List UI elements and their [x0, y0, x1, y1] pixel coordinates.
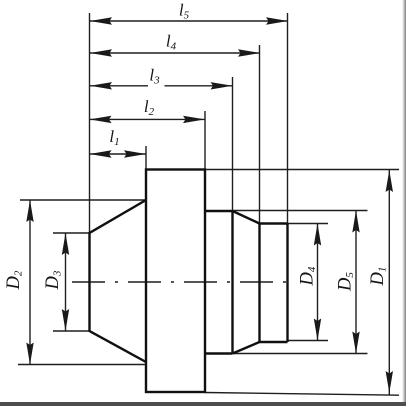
svg-text:D2: D2	[4, 270, 25, 290]
svg-text:D3: D3	[43, 270, 64, 290]
svg-text:D4: D4	[298, 266, 319, 286]
svg-text:D5: D5	[336, 272, 357, 292]
svg-text:l4: l4	[166, 31, 177, 52]
svg-text:D1: D1	[368, 267, 389, 287]
svg-text:l1: l1	[109, 127, 119, 148]
svg-text:l3: l3	[149, 65, 160, 86]
svg-text:l5: l5	[179, 0, 190, 21]
svg-text:l2: l2	[144, 97, 155, 118]
